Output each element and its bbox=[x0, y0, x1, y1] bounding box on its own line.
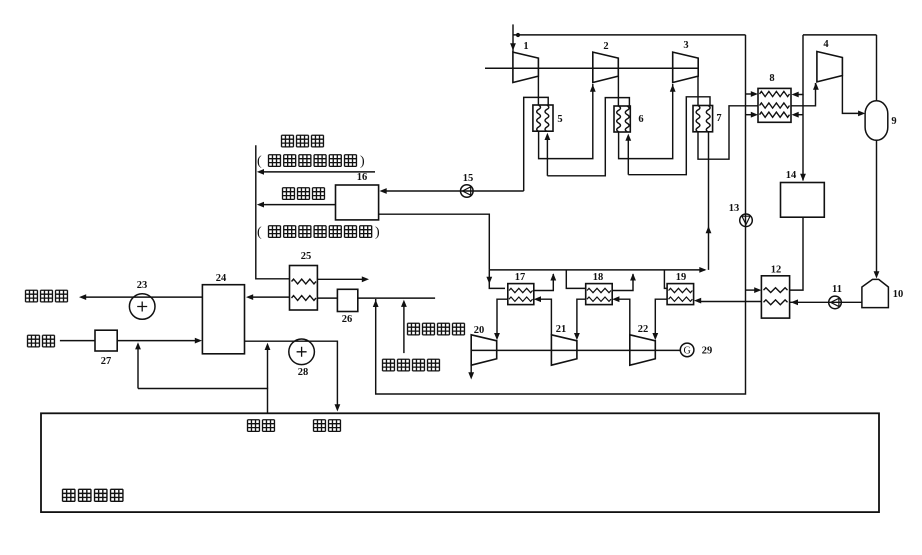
wire: HX25 to box 24 bbox=[250, 296, 290, 298]
turbine 20 bbox=[471, 335, 497, 365]
svg-text:21: 21 bbox=[556, 324, 567, 335]
wire: HX7 air out to HX8 bbox=[698, 106, 758, 159]
heat exchanger 17 coil row2 bbox=[509, 297, 533, 301]
wire: header to HX17 supply bbox=[489, 270, 505, 289]
turbine 21 bbox=[551, 335, 577, 365]
svg-text:13: 13 bbox=[729, 203, 740, 214]
text geothermal regeneration loop bbox=[257, 154, 365, 169]
heat exchanger 19 box bbox=[667, 284, 694, 305]
arrow down on HX17 supply bbox=[486, 277, 492, 284]
label 17 bbox=[515, 272, 526, 283]
wire: compression heat arrow line bbox=[259, 204, 336, 206]
wire: top main line bbox=[513, 34, 746, 36]
label 8 bbox=[769, 73, 774, 84]
wire: stub into HX12 left row1 bbox=[746, 289, 758, 291]
wire: compressor 3 outlet pipe bbox=[697, 77, 699, 106]
heat exchanger 7 air coil bbox=[696, 106, 700, 132]
arrow into HX17 right row2 bbox=[534, 296, 541, 302]
wire: stub into HX8 left row1 bbox=[746, 93, 754, 95]
arrow on compression heat line bbox=[257, 202, 264, 208]
wire: water return line through pump 15 bbox=[383, 190, 524, 192]
label 11 bbox=[832, 284, 842, 295]
heat exchanger 25 coil row1 bbox=[292, 279, 316, 284]
heat exchanger 12 box bbox=[761, 276, 789, 318]
label 7 bbox=[716, 113, 721, 124]
heat exchanger 6 box bbox=[614, 106, 630, 132]
arrow into HX12 left row1 bbox=[754, 287, 761, 293]
wire: HX12 row2 to pump 11 to tank 10 bbox=[790, 301, 862, 303]
wire: header to HX19 supply bbox=[664, 270, 667, 289]
heat exchanger 5 air coil bbox=[537, 105, 541, 131]
box 24 bbox=[202, 285, 244, 354]
heat exchanger 17 box bbox=[508, 284, 534, 305]
box 26 bbox=[337, 289, 357, 311]
svg-text:25: 25 bbox=[301, 251, 312, 262]
label 27 bbox=[101, 356, 112, 367]
label 1 bbox=[523, 41, 528, 52]
fan 23 bbox=[129, 294, 155, 320]
arrow supply air into underground bbox=[335, 404, 341, 411]
text precooled air bbox=[383, 359, 440, 371]
heat exchanger 12 coil row 1 bbox=[764, 288, 788, 293]
heat exchanger 5 water coil bbox=[545, 105, 549, 131]
wire: HX6 water outlet loop to HX5 bbox=[547, 98, 629, 176]
wire: exhaust air line through fan 23 bbox=[83, 296, 202, 298]
wire: top line down into tank 9 bbox=[876, 35, 878, 101]
svg-text:12: 12 bbox=[771, 265, 782, 276]
box 14 bbox=[781, 183, 825, 218]
wire: HX6 air out to compressor 3 bbox=[619, 84, 673, 159]
arrow into box 16 right bbox=[380, 188, 387, 194]
wire: hot water header bbox=[489, 269, 705, 271]
label 5 bbox=[557, 114, 562, 125]
arrow up into header from HX17 bbox=[550, 273, 556, 280]
label 4 bbox=[823, 39, 829, 50]
svg-text:23: 23 bbox=[137, 280, 148, 291]
wire: HX8 right row3 stub bbox=[796, 114, 803, 116]
arrow into HX12 right row2 bbox=[791, 299, 798, 305]
svg-text:): ) bbox=[360, 154, 365, 169]
label 13 bbox=[729, 203, 740, 214]
heat exchanger 7 box bbox=[693, 106, 713, 132]
heat exchanger 8 coil row 2 bbox=[760, 103, 790, 108]
arrow return air joins supply bbox=[265, 343, 271, 350]
arrow into compressor 1 inlet bbox=[510, 43, 516, 50]
wire: line from top into box 14 bbox=[802, 95, 804, 181]
label 9 bbox=[891, 116, 896, 127]
svg-text:24: 24 bbox=[216, 273, 227, 284]
label 29 bbox=[702, 346, 713, 357]
text fresh air bbox=[28, 335, 55, 347]
arrow into HX5 water inlet bbox=[545, 133, 551, 140]
wire: geothermal loop arrow line bbox=[259, 171, 375, 173]
svg-text:18: 18 bbox=[593, 272, 604, 283]
heat exchanger 25 coil row2 bbox=[292, 296, 316, 301]
wire: HX8 right row2 to turbine 4 inlet bbox=[791, 83, 816, 106]
pump 13 bbox=[740, 214, 753, 227]
label 28 bbox=[298, 367, 309, 378]
arrow into HX8 left row1 bbox=[751, 91, 758, 97]
wire: return air up to supply duct bbox=[267, 345, 269, 389]
wire: HX19 air out to turbine 22 bbox=[655, 299, 667, 338]
text geothermal energy bbox=[282, 135, 324, 147]
heat exchanger 17 coil row1 bbox=[509, 288, 533, 292]
svg-text:16: 16 bbox=[357, 172, 368, 183]
wire: regen air riser bbox=[403, 302, 405, 353]
wire: turbine 20 exhaust bbox=[470, 365, 472, 375]
heat exchanger 12 coil row 2 bbox=[764, 300, 788, 305]
arrow into compressor 2 inlet bbox=[590, 85, 596, 92]
svg-text:27: 27 bbox=[101, 356, 112, 367]
svg-text:(: ( bbox=[257, 225, 262, 240]
label 21 bbox=[556, 324, 567, 335]
turbine 22 bbox=[630, 335, 656, 365]
generator 29 bbox=[680, 343, 694, 357]
wire: HX5 air out to compressor 2 bbox=[539, 84, 593, 159]
label 24 bbox=[216, 273, 227, 284]
label 3 bbox=[683, 40, 688, 51]
svg-text:5: 5 bbox=[557, 114, 562, 125]
svg-text:2: 2 bbox=[603, 41, 608, 52]
wire: box 14 bottom to HX12 right row1 bbox=[790, 217, 803, 290]
wire: tank 9 to tank 10 bbox=[876, 140, 878, 275]
wire: header to HX18 supply bbox=[566, 270, 585, 289]
wire: HX7 water inlet riser from header bbox=[708, 132, 710, 270]
wire: turbine 4 outlet to tank 9 bbox=[842, 76, 861, 114]
heat exchanger 8 coil row 1 bbox=[760, 91, 790, 96]
heat exchanger 7 water coil bbox=[706, 106, 710, 132]
svg-text:(: ( bbox=[257, 154, 262, 169]
label 15 bbox=[463, 173, 474, 184]
label 12 bbox=[771, 265, 782, 276]
label 18 bbox=[593, 272, 604, 283]
arrow into box 14 bbox=[800, 174, 806, 181]
svg-text:7: 7 bbox=[716, 113, 721, 124]
wire: left regeneration bus bbox=[256, 145, 290, 279]
wire: branch down into HX8 right row1 bbox=[796, 35, 803, 95]
arrow into turbine 22 inlet bbox=[652, 333, 658, 340]
svg-text:19: 19 bbox=[676, 272, 687, 283]
wire: box 16 supply down to header bbox=[379, 214, 490, 270]
box 27 bbox=[95, 330, 117, 351]
arrow on header end bbox=[699, 267, 706, 273]
wire: main vertical through pump 13 bbox=[376, 35, 746, 394]
arrow into HX8 right row1 bbox=[792, 92, 799, 98]
compressor 1 bbox=[513, 52, 539, 82]
arrow up on precooled air riser bbox=[373, 300, 379, 307]
heat exchanger 5 box bbox=[533, 105, 553, 131]
pump 11 bbox=[829, 296, 842, 309]
label 2 bbox=[603, 41, 608, 52]
arrow into HX8 right row3 bbox=[792, 112, 799, 118]
arrow up on HX7 water riser bbox=[706, 226, 712, 233]
svg-text:14: 14 bbox=[786, 170, 797, 181]
wire: turbine 21 out to HX17 bbox=[538, 299, 551, 335]
label 23 bbox=[137, 280, 148, 291]
underground space box bbox=[41, 413, 879, 512]
svg-text:8: 8 bbox=[769, 73, 774, 84]
arrow exhaust air bbox=[79, 294, 86, 300]
arrow into HX8 left row3 bbox=[751, 112, 758, 118]
arrow into tank 10 bbox=[874, 271, 880, 278]
svg-text:17: 17 bbox=[515, 272, 526, 283]
wire: fresh air line bbox=[60, 340, 198, 342]
tank 10 bbox=[862, 279, 889, 307]
compressor 2 bbox=[593, 52, 619, 82]
text compression heat bbox=[283, 188, 325, 200]
wire: HX17 air out to turbine 20 bbox=[497, 299, 508, 338]
heat exchanger 6 air coil bbox=[617, 106, 621, 132]
heat exchanger 6 water coil bbox=[625, 106, 629, 132]
wire: turbine 22 out to HX18 bbox=[616, 299, 630, 335]
wire: HX12 row2 to HX19 bbox=[698, 301, 761, 303]
wire: return air line bbox=[138, 389, 268, 414]
heat exchanger 8 coil row 3 bbox=[760, 112, 790, 117]
arrow into turbine 4 inlet bbox=[813, 83, 819, 90]
svg-text:6: 6 bbox=[638, 114, 643, 125]
svg-text:11: 11 bbox=[832, 284, 842, 295]
heat exchanger 18 coil row2 bbox=[587, 297, 611, 301]
arrow into tank 9 bbox=[858, 111, 865, 117]
arrow up into header from HX18 bbox=[630, 273, 636, 280]
fan 28 bbox=[289, 339, 315, 365]
wire: HX5 water outlet loop bbox=[524, 97, 549, 191]
arrow into compressor 3 inlet bbox=[670, 85, 676, 92]
wire: compressor 1 outlet pipe bbox=[537, 77, 539, 106]
arrow regen air outlet bbox=[362, 276, 369, 282]
arrow into box 24 right bbox=[246, 294, 253, 300]
svg-text:): ) bbox=[375, 225, 380, 240]
arrow into HX19 right row2 bbox=[694, 298, 701, 304]
heat exchanger 19 coil row2 bbox=[669, 297, 693, 301]
wire: supply line through fan 28 bbox=[245, 341, 338, 409]
text supply air label bbox=[314, 420, 341, 432]
arrow on geothermal line bbox=[257, 169, 264, 175]
compressor 3 bbox=[673, 52, 699, 82]
wire: HX6 water inlet riser bbox=[627, 138, 629, 175]
svg-text:20: 20 bbox=[474, 325, 485, 336]
label 10 bbox=[893, 289, 904, 300]
wire: turbine shaft bbox=[471, 349, 680, 351]
wire: HX5 water inlet riser bbox=[546, 138, 548, 176]
arrow up regen air bbox=[401, 300, 407, 307]
arrow turbine 20 exhaust bbox=[468, 372, 474, 379]
svg-text:26: 26 bbox=[342, 314, 353, 325]
wire: return air branch up bbox=[137, 345, 139, 389]
label 19 bbox=[676, 272, 687, 283]
svg-text:29: 29 bbox=[702, 346, 713, 357]
wire: HX18 air out to turbine 21 bbox=[577, 299, 586, 338]
wire: air intake stub bbox=[512, 24, 514, 52]
svg-text:3: 3 bbox=[683, 40, 688, 51]
arrow return air joins fresh bbox=[135, 342, 141, 349]
svg-text:10: 10 bbox=[893, 289, 904, 300]
node: junction dot at top line bbox=[516, 33, 520, 37]
wire: HX25 regen air outlet bbox=[317, 278, 365, 280]
label 26 bbox=[342, 314, 353, 325]
heat exchanger 18 box bbox=[586, 284, 613, 305]
wire: regen air line from box 26 bbox=[358, 297, 435, 299]
tank 9 bbox=[865, 101, 888, 141]
turbine 4 bbox=[817, 52, 843, 82]
wire: HX18 return to header bbox=[612, 274, 633, 291]
arrow into box 24 fresh air bbox=[195, 338, 202, 344]
box 16 bbox=[336, 185, 379, 220]
wire: stub into HX8 left row3 bbox=[746, 114, 754, 116]
svg-text:28: 28 bbox=[298, 367, 309, 378]
text underground space bbox=[63, 489, 123, 501]
text return air label bbox=[248, 420, 275, 432]
text regen air bbox=[408, 323, 465, 335]
wire: HX25 to box 26 bbox=[317, 297, 337, 299]
wire: compressor shaft bbox=[485, 67, 698, 69]
arrow into HX18 right row2 bbox=[612, 296, 619, 302]
arrow into turbine 20 inlet bbox=[494, 333, 500, 340]
label 20 bbox=[474, 325, 485, 336]
svg-text:G: G bbox=[683, 346, 690, 357]
wire: HX7 water outlet loop to HX6 bbox=[628, 97, 710, 175]
label 14 bbox=[786, 170, 797, 181]
svg-text:22: 22 bbox=[638, 324, 649, 335]
label 6 bbox=[638, 114, 643, 125]
text exhaust air bbox=[26, 290, 68, 302]
arrow into turbine 21 inlet bbox=[574, 333, 580, 340]
label 22 bbox=[638, 324, 649, 335]
heat exchanger 18 coil row1 bbox=[587, 288, 611, 292]
arrow into HX6 water inlet bbox=[625, 134, 631, 141]
heat exchanger 25 box bbox=[290, 266, 318, 311]
svg-text:15: 15 bbox=[463, 173, 474, 184]
svg-text:1: 1 bbox=[523, 41, 528, 52]
text compression heat regeneration loop bbox=[257, 225, 380, 240]
pump 15 bbox=[461, 185, 474, 198]
svg-text:4: 4 bbox=[823, 39, 829, 50]
wire: top right bracket line bbox=[803, 34, 877, 36]
label 16 bbox=[357, 172, 368, 183]
svg-text:9: 9 bbox=[891, 116, 896, 127]
wire: HX17 return to header bbox=[534, 274, 554, 291]
label 25 bbox=[301, 251, 312, 262]
heat exchanger 19 coil row1 bbox=[669, 288, 693, 292]
heat exchanger 8 box bbox=[758, 88, 791, 122]
wire: compressor 2 outlet pipe bbox=[617, 77, 619, 107]
